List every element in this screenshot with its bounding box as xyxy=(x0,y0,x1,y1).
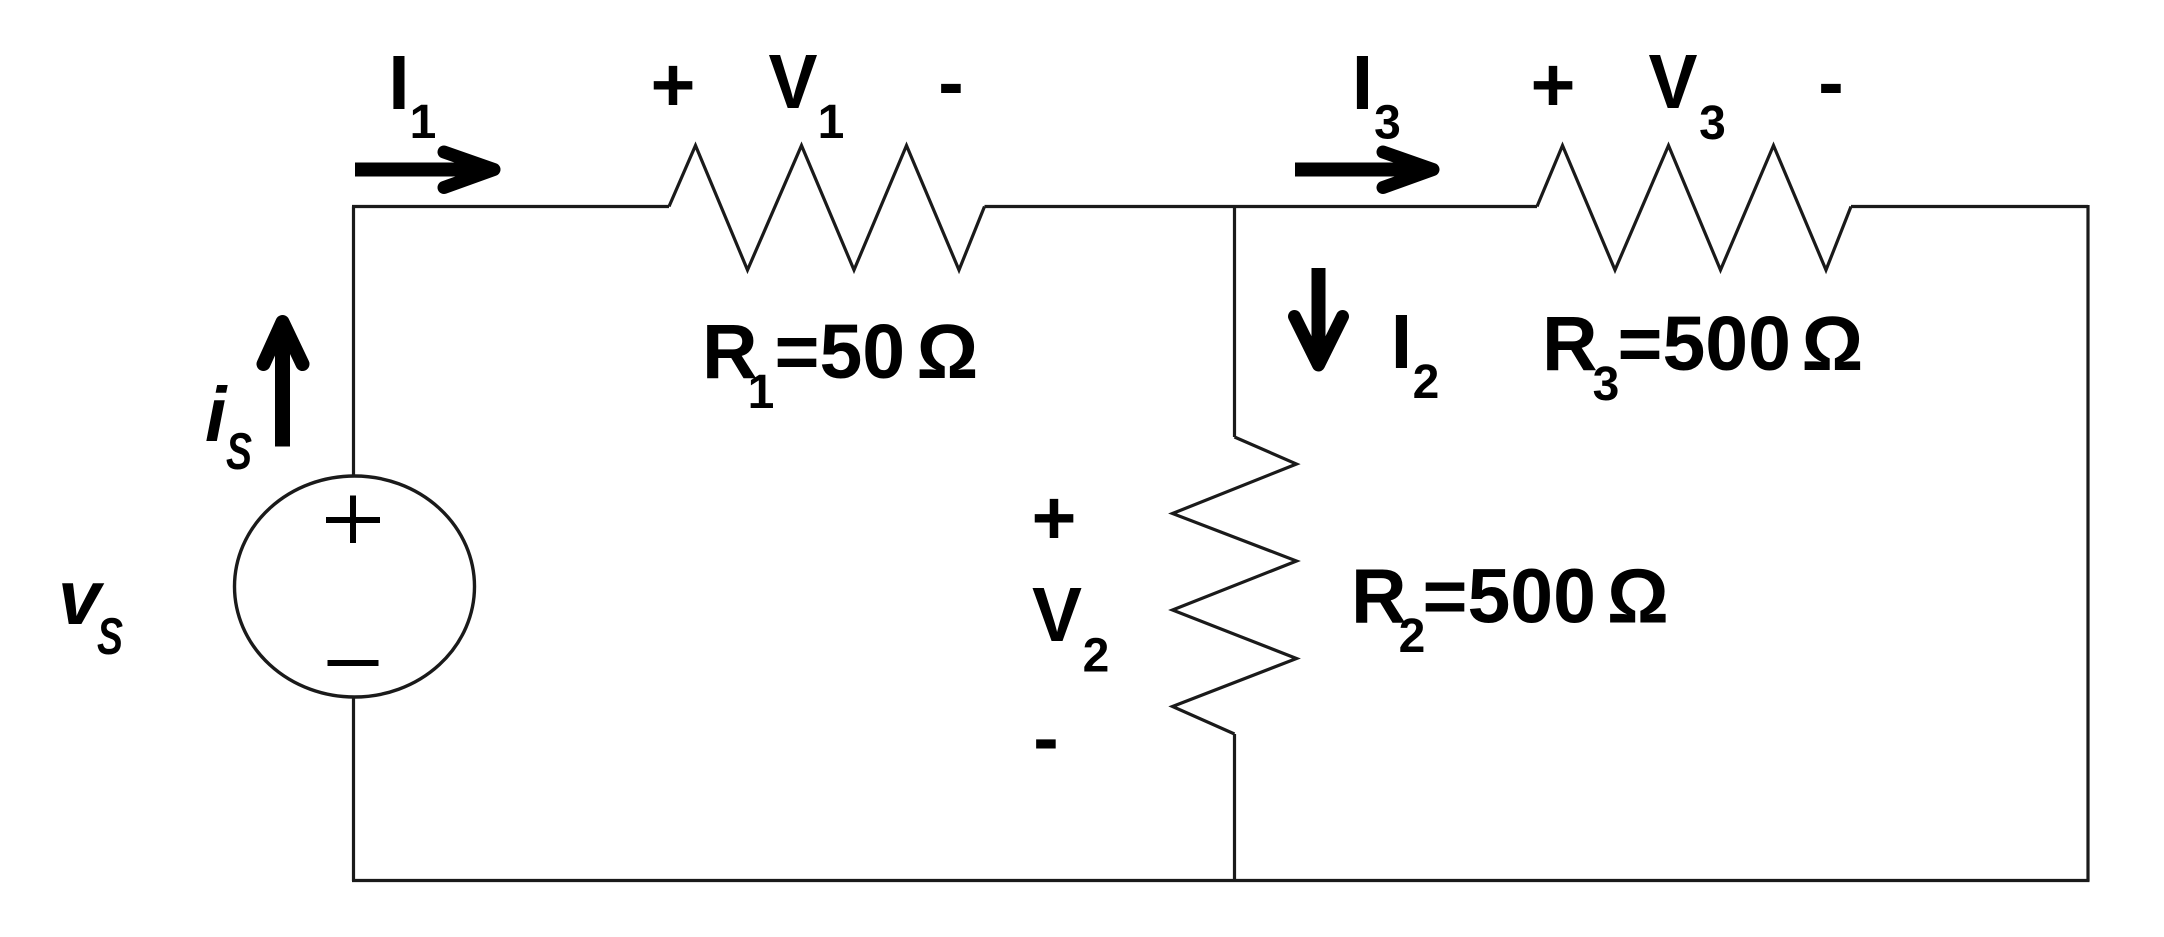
svg-text:3: 3 xyxy=(1374,97,1401,150)
label V1 xyxy=(769,39,845,149)
wire top right horizontal xyxy=(1851,205,2088,208)
svg-text:i: i xyxy=(205,372,228,458)
label V3 xyxy=(1649,39,1726,150)
svg-text:V: V xyxy=(769,39,818,125)
svg-text:-: - xyxy=(938,40,964,126)
svg-text:R: R xyxy=(1542,301,1598,387)
label I3 xyxy=(1352,40,1401,150)
svg-text:Ω: Ω xyxy=(1607,554,1669,640)
svg-text:I: I xyxy=(1391,299,1412,385)
wire top middle horizontal xyxy=(985,205,1538,208)
svg-text:2: 2 xyxy=(1083,630,1110,683)
svg-text:1: 1 xyxy=(748,366,775,419)
node: middle vertical wire xyxy=(1233,207,1236,438)
label R2=500 ohm xyxy=(1351,554,1669,664)
vs plus terminal xyxy=(326,496,380,544)
vs minus terminal xyxy=(328,660,379,666)
svg-text:=50: =50 xyxy=(775,309,906,395)
svg-text:1: 1 xyxy=(818,96,845,149)
svg-text:+: + xyxy=(651,42,696,128)
svg-text:V: V xyxy=(1032,572,1082,658)
svg-text:Ω: Ω xyxy=(1802,301,1864,387)
resistor R2 xyxy=(1173,437,1297,734)
wire below R2 xyxy=(1233,734,1236,881)
current arrow is (upward) xyxy=(264,322,303,447)
svg-text:+: + xyxy=(1531,42,1576,128)
svg-text:S: S xyxy=(226,423,252,481)
svg-text:-: - xyxy=(1033,695,1059,781)
svg-text:I: I xyxy=(1352,40,1373,126)
wire top left horizontal xyxy=(352,205,669,208)
label is xyxy=(205,372,252,481)
svg-text:=500: =500 xyxy=(1618,301,1791,387)
label I1 xyxy=(388,40,436,149)
current arrow I1 xyxy=(355,152,494,188)
label vs xyxy=(58,555,123,666)
voltage source vs xyxy=(235,476,475,697)
svg-text:=500: =500 xyxy=(1423,554,1596,640)
svg-text:S: S xyxy=(97,608,123,666)
svg-text:2: 2 xyxy=(1399,610,1426,663)
label R3=500 ohm xyxy=(1542,301,1863,411)
svg-text:1: 1 xyxy=(410,96,437,149)
current arrow I3 xyxy=(1295,152,1433,188)
wire right vertical xyxy=(2086,205,2089,881)
resistor R3 xyxy=(1537,146,1851,271)
svg-text:I: I xyxy=(388,40,409,126)
svg-text:V: V xyxy=(1649,39,1698,125)
svg-text:+: + xyxy=(1032,475,1077,561)
label I2 xyxy=(1391,299,1440,409)
label V2 xyxy=(1032,572,1109,683)
svg-text:3: 3 xyxy=(1593,358,1620,411)
wire left vertical (source top lead to top-left corner) xyxy=(352,207,355,478)
current arrow I2 (downward) xyxy=(1295,268,1343,365)
svg-text:3: 3 xyxy=(1699,97,1726,150)
label R1=50 ohm xyxy=(702,309,978,419)
svg-text:2: 2 xyxy=(1413,356,1440,409)
wire source bottom lead xyxy=(352,697,355,881)
wire bottom horizontal xyxy=(352,879,2090,882)
resistor R1 xyxy=(669,146,985,271)
svg-text:Ω: Ω xyxy=(917,309,979,395)
svg-text:-: - xyxy=(1818,40,1844,126)
